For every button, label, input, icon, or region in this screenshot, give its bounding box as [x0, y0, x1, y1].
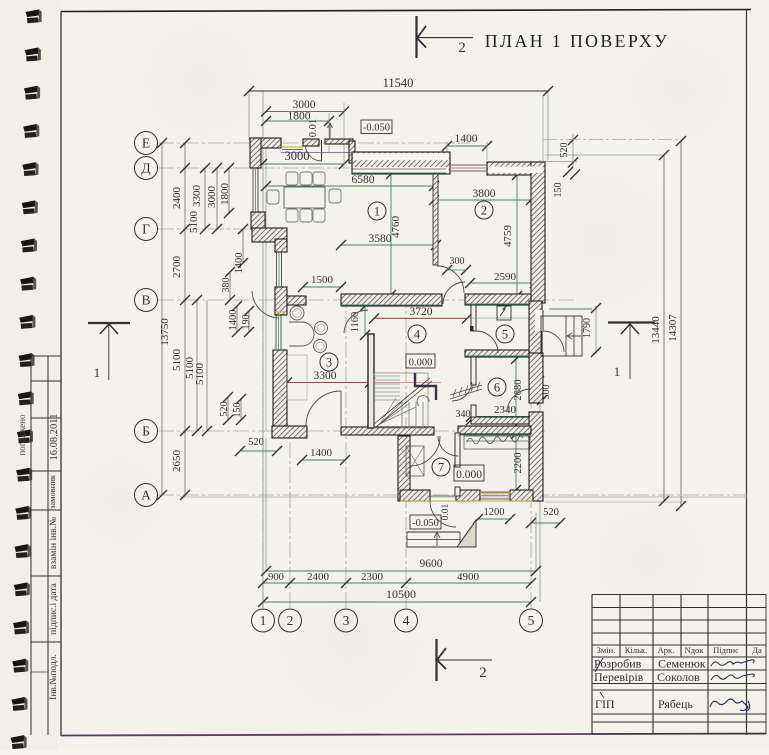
svg-text:2: 2	[481, 204, 487, 218]
svg-text:150: 150	[232, 403, 243, 418]
svg-text:1800: 1800	[219, 183, 231, 206]
svg-text:2: 2	[479, 665, 487, 681]
svg-text:3580: 3580	[369, 233, 392, 245]
svg-text:Змін.: Змін.	[597, 645, 616, 655]
svg-text:0.000: 0.000	[409, 358, 433, 369]
svg-text:1200: 1200	[484, 507, 505, 518]
svg-text:520: 520	[248, 437, 264, 448]
svg-text:1: 1	[94, 365, 101, 380]
svg-text:Перевірів: Перевірів	[594, 670, 644, 684]
svg-text:2200: 2200	[513, 453, 524, 474]
svg-text:-0.050: -0.050	[412, 518, 439, 529]
svg-text:2340: 2340	[494, 404, 517, 416]
svg-text:ГІП: ГІП	[595, 697, 615, 711]
svg-text:340: 340	[456, 409, 471, 420]
svg-text:3300: 3300	[191, 185, 203, 208]
svg-text:1400: 1400	[234, 253, 245, 274]
svg-text:520: 520	[543, 507, 559, 518]
svg-text:1160: 1160	[350, 312, 361, 333]
svg-text:13750: 13750	[159, 318, 171, 346]
svg-text:7: 7	[438, 461, 444, 475]
svg-text:2: 2	[458, 40, 466, 56]
svg-text:2300: 2300	[361, 571, 384, 583]
svg-text:5100: 5100	[171, 349, 183, 372]
svg-text:5100: 5100	[194, 363, 206, 386]
svg-text:1500: 1500	[311, 274, 334, 286]
svg-text:2650: 2650	[171, 450, 183, 473]
svg-text:14307: 14307	[667, 314, 679, 342]
svg-text:Е: Е	[142, 136, 150, 151]
svg-text:1400: 1400	[310, 447, 333, 459]
svg-text:3300: 3300	[314, 370, 337, 382]
svg-text:В: В	[141, 293, 150, 308]
svg-text:Інв.№подл.: Інв.№подл.	[49, 654, 59, 700]
svg-text:11540: 11540	[383, 76, 414, 90]
svg-text:взамін інв.№: взамін інв.№	[49, 517, 59, 569]
svg-text:6580: 6580	[352, 174, 375, 186]
svg-text:5: 5	[502, 328, 508, 342]
svg-text:4760: 4760	[390, 216, 402, 239]
svg-text:900: 900	[268, 572, 284, 583]
svg-text:5: 5	[528, 613, 535, 628]
svg-text:9600: 9600	[420, 558, 443, 570]
svg-text:0.000: 0.000	[456, 469, 482, 481]
svg-text:0.01: 0.01	[308, 119, 319, 137]
svg-text:1: 1	[614, 364, 621, 379]
svg-text:підпис.і дата: підпис.і дата	[49, 582, 59, 634]
svg-text:1: 1	[374, 205, 380, 219]
svg-text:190: 190	[241, 315, 252, 330]
svg-text:3: 3	[343, 613, 350, 628]
svg-text:5100: 5100	[188, 211, 200, 234]
svg-text:520: 520	[219, 402, 230, 417]
svg-text:Соколов: Соколов	[657, 670, 700, 684]
svg-text:А: А	[141, 488, 151, 503]
svg-text:2400: 2400	[171, 187, 183, 210]
svg-text:3720: 3720	[410, 306, 433, 318]
svg-text:Г: Г	[142, 222, 150, 237]
svg-text:16.08.2011: 16.08.2011	[49, 414, 60, 461]
svg-text:1400: 1400	[228, 310, 239, 331]
svg-text:Д: Д	[141, 161, 150, 176]
svg-text:4759: 4759	[502, 225, 514, 248]
svg-text:2: 2	[287, 613, 294, 628]
svg-text:4: 4	[414, 328, 421, 342]
svg-text:Nдок: Nдок	[685, 645, 705, 655]
svg-text:3000: 3000	[285, 149, 310, 163]
svg-text:1790: 1790	[582, 318, 593, 338]
svg-text:замовник: замовник	[47, 474, 57, 509]
svg-text:2700: 2700	[171, 256, 183, 279]
svg-text:4: 4	[403, 613, 410, 628]
svg-text:2590: 2590	[494, 271, 517, 283]
svg-text:Семенюк: Семенюк	[658, 657, 706, 671]
svg-text:10500: 10500	[386, 587, 416, 601]
svg-text:погоджено: погоджено	[17, 414, 27, 456]
svg-text:-0.050: -0.050	[363, 123, 390, 134]
svg-text:3800: 3800	[473, 188, 496, 200]
svg-text:3: 3	[326, 356, 332, 370]
svg-text:2680: 2680	[513, 380, 524, 401]
svg-text:ПЛАН 1 ПОВЕРХУ: ПЛАН 1 ПОВЕРХУ	[485, 31, 669, 51]
svg-text:380: 380	[221, 278, 232, 293]
svg-text:1400: 1400	[455, 133, 478, 145]
svg-text:6: 6	[494, 381, 500, 395]
svg-text:2400: 2400	[307, 571, 330, 583]
svg-text:Да: Да	[752, 645, 762, 655]
svg-text:0.01: 0.01	[441, 503, 451, 520]
svg-text:3000: 3000	[293, 99, 316, 111]
svg-text:150: 150	[553, 183, 564, 198]
svg-text:Арк.: Арк.	[658, 645, 675, 655]
svg-text:Підпис: Підпис	[713, 645, 739, 655]
svg-text:13440: 13440	[650, 316, 662, 344]
svg-text:Б: Б	[142, 424, 150, 439]
svg-text:1: 1	[260, 613, 267, 628]
svg-text:Рябець: Рябець	[658, 697, 693, 711]
svg-text:4900: 4900	[457, 571, 480, 583]
svg-text:Кільк.: Кільк.	[625, 645, 647, 655]
svg-text:3000: 3000	[206, 186, 218, 209]
svg-text:Розробив: Розробив	[594, 657, 642, 671]
